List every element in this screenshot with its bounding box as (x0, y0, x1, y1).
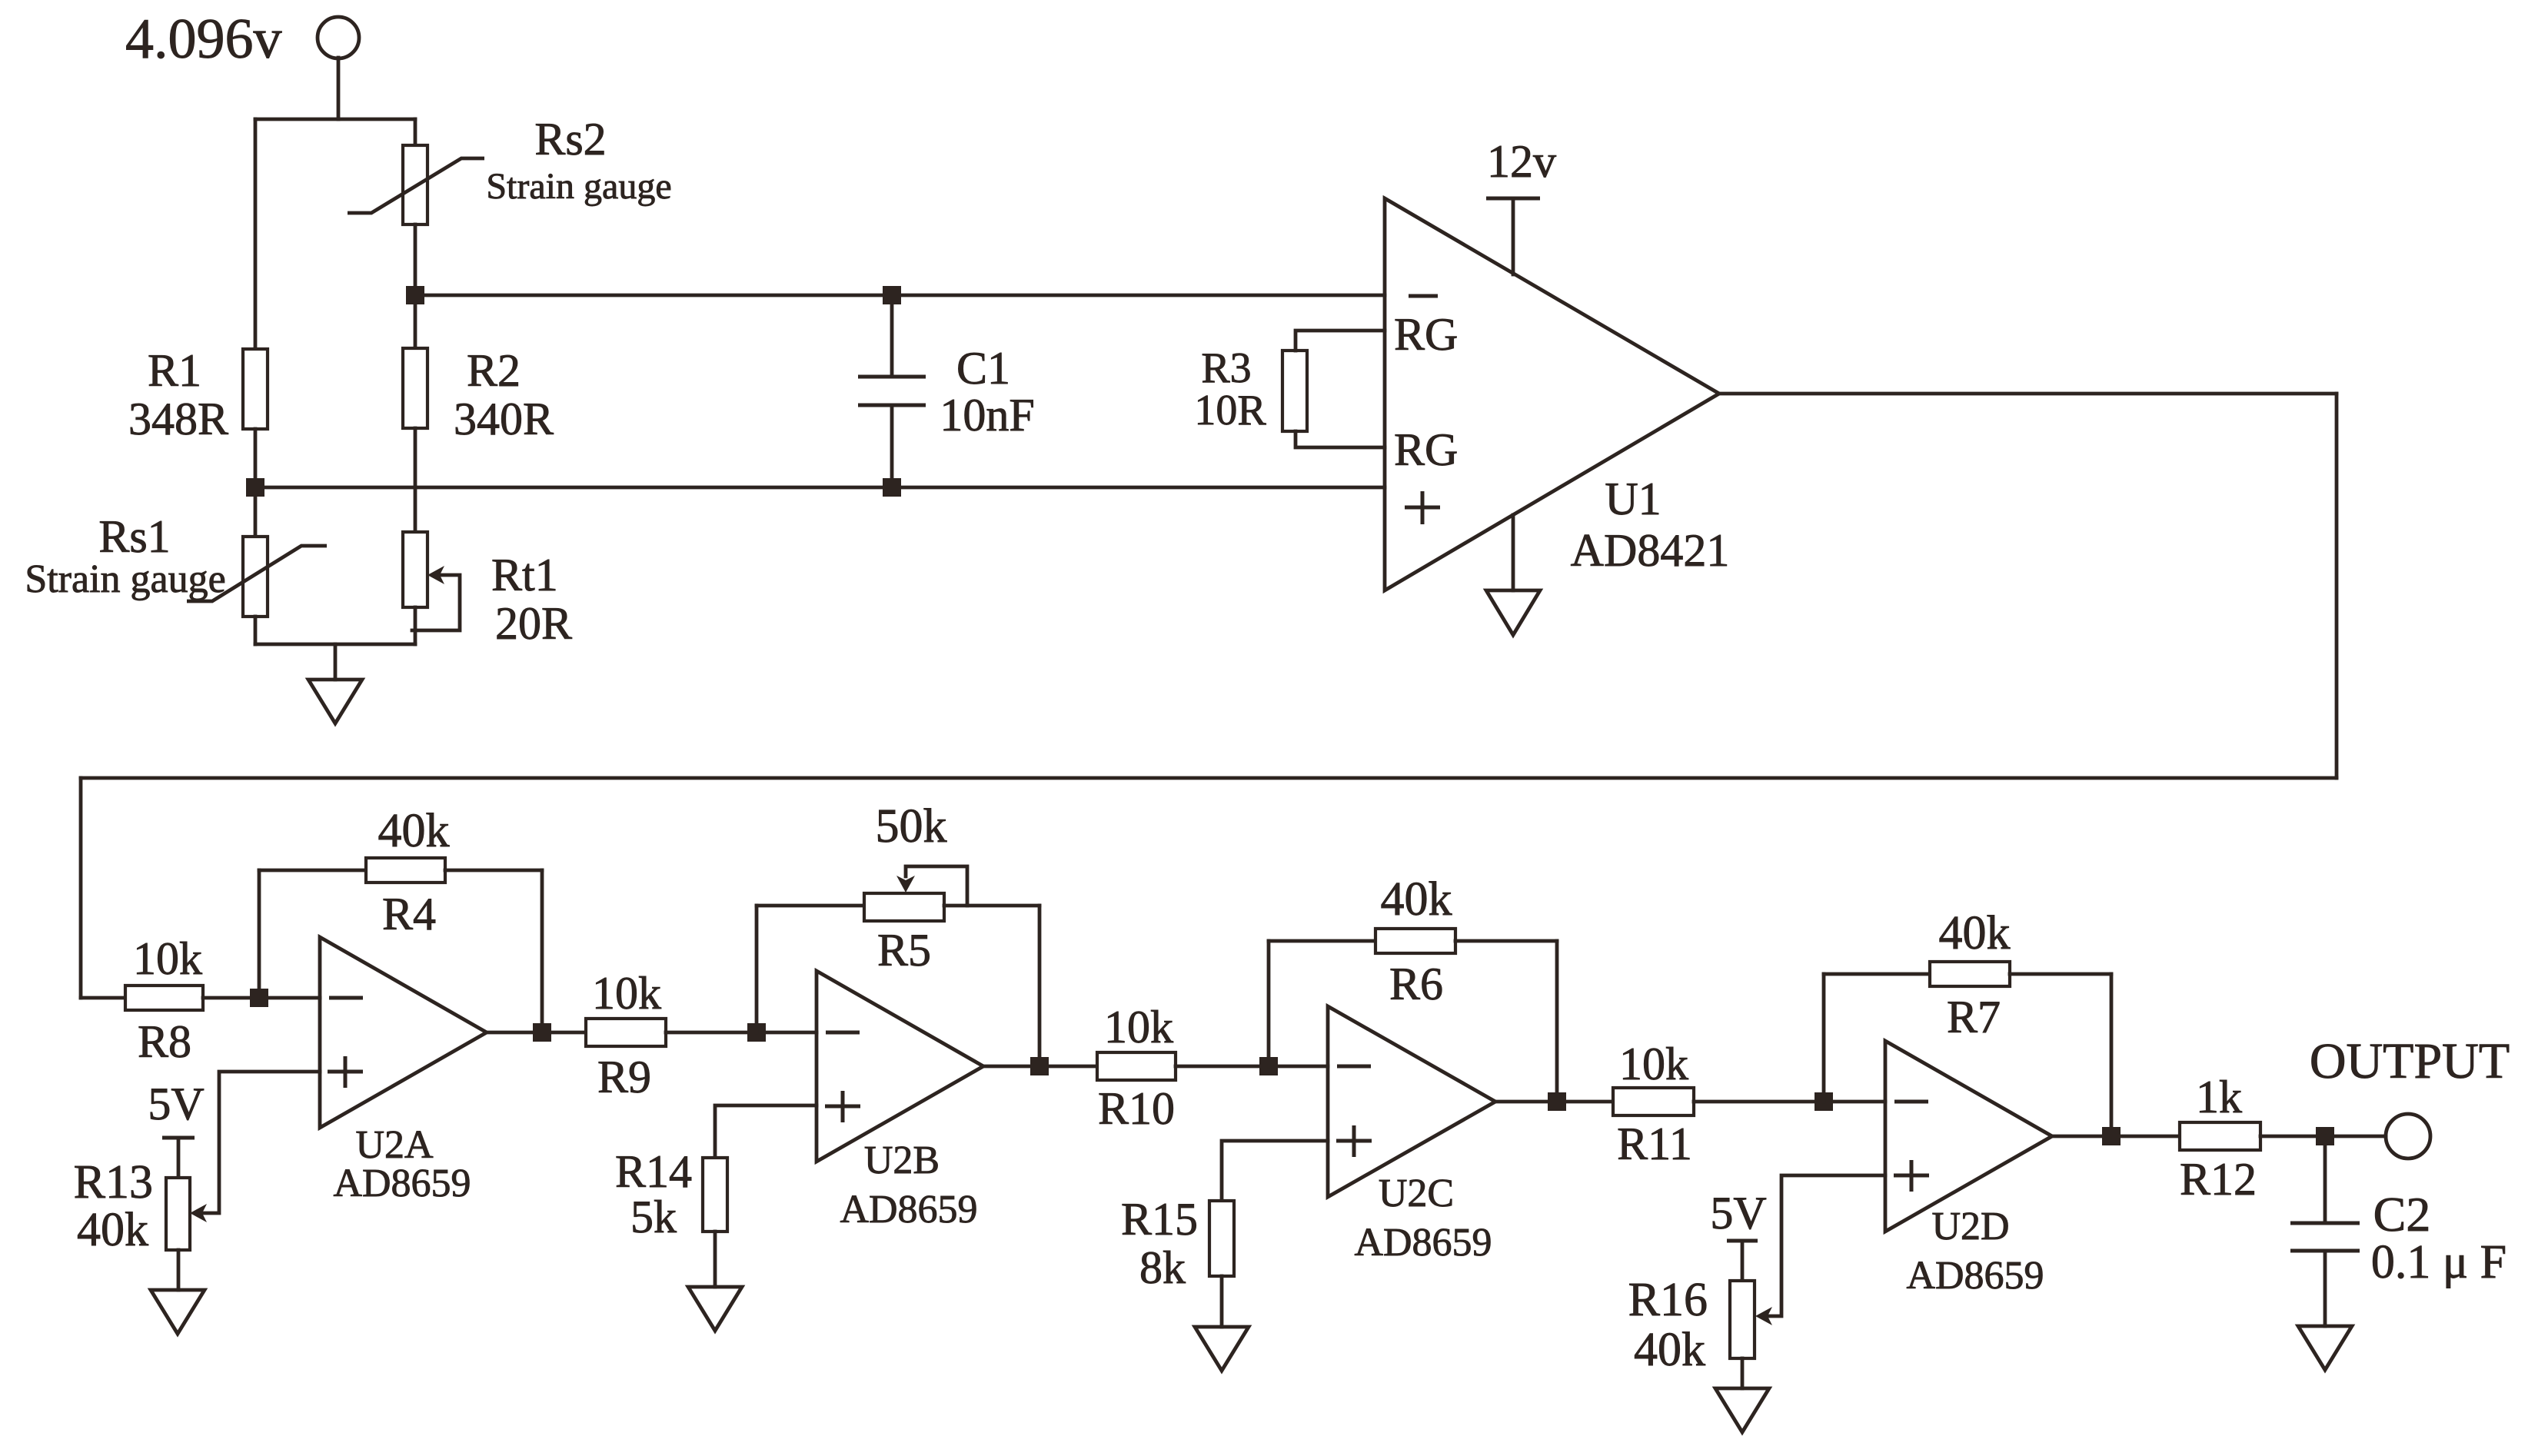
op-amp U2C AD8659 (1328, 1006, 1495, 1197)
svg-text:348R: 348R (128, 394, 228, 444)
wire R11 to U2D minus (1694, 1100, 1885, 1104)
strain symbol Rs2 diagonal (348, 158, 484, 213)
resistor R15 (1209, 1201, 1234, 1276)
junction U2A output node (533, 1023, 551, 1042)
junction U2B output node (1030, 1057, 1049, 1075)
resistor R2 (403, 348, 427, 428)
pin plus U2B (825, 1091, 860, 1122)
wire R9 to U2B minus (666, 1031, 817, 1035)
wiper arrow Rt1 (427, 566, 444, 584)
wire R8 to U2A minus (203, 996, 320, 1000)
svg-text:C1: C1 (956, 343, 1010, 394)
wire R10 to U2C minus (1176, 1065, 1328, 1069)
pin minus U2A (329, 996, 363, 1000)
svg-text:10nF: 10nF (940, 390, 1034, 440)
wire minus signal net (415, 294, 1385, 298)
wire U2B plus lead (715, 1105, 817, 1158)
svg-text:OUTPUT: OUTPUT (2310, 1033, 2510, 1089)
wire R5 right vertical (1038, 906, 1042, 1066)
wire R14 ground stem (713, 1232, 717, 1287)
trimmer Rt1 (403, 532, 427, 607)
resistor Rs2 strain gauge (403, 145, 427, 224)
wire U2C output (1495, 1100, 1613, 1104)
svg-text:R4: R4 (382, 889, 436, 939)
wire R4 right vertical (541, 870, 544, 1032)
wire R6 right horizontal (1455, 939, 1557, 943)
svg-text:R9: R9 (597, 1052, 651, 1102)
svg-text:12v: 12v (1487, 136, 1556, 187)
wire U2D output (2052, 1135, 2180, 1139)
op-amp U1 AD8421 (1385, 198, 1719, 590)
resistor R14 (703, 1158, 727, 1232)
resistor R8 (125, 986, 203, 1010)
wire 5V to R13 (177, 1138, 181, 1178)
svg-text:10k: 10k (1619, 1039, 1688, 1089)
svg-text:R1: R1 (148, 345, 201, 396)
capacitor C2 (2290, 1136, 2360, 1326)
svg-text:C2: C2 (2373, 1187, 2431, 1242)
node supply terminal circle (318, 17, 359, 58)
svg-text:U2D: U2D (1931, 1205, 2009, 1248)
svg-text:40k: 40k (378, 805, 450, 857)
pin minus U2C (1337, 1065, 1371, 1069)
wire R15 ground stem (1220, 1276, 1224, 1327)
svg-text:R14: R14 (615, 1146, 692, 1197)
wire R6 left horizontal (1269, 939, 1375, 943)
wire U1 output (1719, 392, 2337, 396)
wire R13 ground stem (177, 1250, 181, 1290)
svg-text:RG: RG (1394, 424, 1458, 475)
potentiometer R5 (864, 893, 944, 921)
wire bridge ground stem (334, 644, 338, 680)
wire bridge right branch upper (414, 119, 417, 145)
wire U2A output (487, 1031, 586, 1035)
wire into R8 (81, 996, 125, 1000)
svg-text:AD8659: AD8659 (1354, 1221, 1492, 1265)
svg-text:R8: R8 (138, 1016, 191, 1067)
svg-text:Rt1: Rt1 (491, 550, 558, 600)
svg-text:U2B: U2B (864, 1139, 940, 1182)
svg-text:R15: R15 (1121, 1194, 1198, 1245)
wire U2C plus lead (1222, 1141, 1328, 1201)
wire long return (81, 776, 2337, 780)
wire left edge vertical (79, 778, 83, 998)
svg-text:R2: R2 (467, 345, 521, 396)
power 5V bar R13 (162, 1136, 195, 1140)
svg-text:5V: 5V (1710, 1188, 1766, 1238)
svg-text:10R: 10R (1194, 387, 1266, 434)
wire R4 right horizontal (445, 869, 542, 873)
junction bridge left output (246, 478, 264, 497)
svg-text:50k: 50k (876, 800, 947, 853)
svg-text:40k: 40k (1634, 1324, 1705, 1376)
ground R15 (1195, 1327, 1249, 1371)
wire bridge bottom bar (255, 643, 415, 647)
junction output node (2316, 1127, 2334, 1145)
svg-text:R5: R5 (877, 925, 931, 976)
svg-text:R16: R16 (1628, 1274, 1708, 1326)
wiper arrow R16 (1755, 1307, 1772, 1325)
wire R5 left horizontal (757, 904, 864, 908)
ground R16 (1715, 1388, 1769, 1432)
svg-text:5V: 5V (148, 1079, 204, 1129)
svg-text:10k: 10k (133, 933, 202, 984)
svg-text:Strain gauge: Strain gauge (25, 557, 225, 601)
wire U1 ground stem (1512, 515, 1515, 590)
junction U2C minus node (1259, 1057, 1278, 1075)
svg-text:RG: RG (1394, 309, 1458, 360)
resistor R11 (1613, 1088, 1694, 1115)
ground R13 (151, 1290, 205, 1334)
wire R4 left vertical (258, 870, 261, 998)
wire supply stem (337, 58, 341, 119)
wire bridge right branch middle (414, 224, 417, 348)
junction C1 bottom (883, 478, 901, 497)
svg-text:20R: 20R (495, 598, 572, 649)
junction U2D output node (2102, 1127, 2121, 1145)
op-amp U2D AD8659 (1885, 1041, 2052, 1232)
wire 5V to R16 (1741, 1241, 1745, 1281)
junction U2C output node (1548, 1092, 1566, 1111)
op-amp U2B AD8659 (817, 971, 983, 1162)
trimmer R16 (1730, 1281, 1755, 1358)
power 5V bar R16 (1727, 1239, 1758, 1243)
svg-text:U2A: U2A (355, 1123, 434, 1167)
trimmer R13 (166, 1178, 190, 1250)
resistor R4 (366, 858, 445, 883)
wire 12v stem (1512, 198, 1515, 274)
pin plus U1 (1405, 491, 1440, 524)
wire bridge left branch middle (254, 429, 258, 537)
pin plus U2D (1894, 1160, 1929, 1192)
svg-text:40k: 40k (1939, 907, 2011, 959)
wire U2D plus lead (1768, 1175, 1885, 1316)
svg-text:10k: 10k (592, 968, 661, 1019)
wire R5 wiper loop (906, 866, 967, 906)
wire bridge left branch lower (254, 617, 258, 644)
resistor R7 (1930, 962, 2010, 986)
svg-text:40k: 40k (77, 1204, 148, 1256)
svg-text:1k: 1k (2196, 1072, 2242, 1122)
ground bridge (308, 680, 362, 723)
strain symbol Rs1 diagonal (187, 546, 327, 601)
wire R12 to output (2260, 1135, 2386, 1139)
wire bridge left branch upper (254, 119, 258, 349)
ground U1 (1486, 590, 1540, 635)
resistor R10 (1097, 1052, 1176, 1080)
svg-text:R7: R7 (1947, 992, 2001, 1042)
junction bridge right output (406, 286, 424, 304)
resistor Rs1 strain gauge (243, 537, 268, 617)
wire R16 ground stem (1741, 1358, 1745, 1388)
svg-text:8k: 8k (1139, 1242, 1186, 1293)
resistor R6 (1375, 929, 1455, 953)
svg-text:AD8421: AD8421 (1571, 525, 1730, 576)
resistor R1 (243, 349, 268, 429)
pin plus U2A (328, 1056, 363, 1088)
wire R6 right vertical (1555, 941, 1559, 1102)
capacitor C1 (858, 295, 926, 487)
pin minus U2D (1894, 1100, 1928, 1104)
wire R4 left horizontal (259, 869, 366, 873)
svg-text:R12: R12 (2180, 1154, 2257, 1205)
wire R5 right horizontal (944, 904, 1039, 908)
junction U2A minus node (250, 989, 268, 1007)
node output terminal circle (2386, 1114, 2430, 1158)
junction U2D minus node (1815, 1092, 1833, 1111)
wire R7 left vertical (1822, 974, 1826, 1102)
wire plus signal net (255, 486, 1385, 490)
svg-text:R6: R6 (1389, 959, 1443, 1009)
pin plus U2C (1336, 1125, 1372, 1157)
wiper arrow R13 (190, 1204, 207, 1222)
svg-text:40k: 40k (1381, 873, 1452, 926)
op-amp U2A AD8659 (320, 937, 487, 1128)
svg-text:R11: R11 (1617, 1119, 1692, 1169)
svg-text:U1: U1 (1605, 474, 1661, 524)
svg-text:340R: 340R (454, 394, 554, 444)
wire R7 right vertical (2110, 974, 2114, 1136)
wire U2B output (983, 1065, 1097, 1069)
svg-text:10k: 10k (1104, 1002, 1173, 1052)
pin minus U1 (1409, 294, 1438, 298)
svg-text:Strain gauge: Strain gauge (486, 166, 671, 207)
wire bridge top bar (255, 118, 415, 121)
svg-text:U2C: U2C (1379, 1172, 1454, 1215)
power 12v bar (1486, 197, 1540, 201)
junction C1 top (883, 286, 901, 304)
svg-text:R10: R10 (1098, 1083, 1175, 1134)
svg-text:AD8659: AD8659 (333, 1162, 471, 1205)
pin minus U2B (826, 1031, 860, 1035)
svg-text:R3: R3 (1201, 344, 1251, 392)
resistor R9 (586, 1019, 666, 1046)
svg-text:4.096v: 4.096v (125, 8, 282, 71)
wire U2A plus lead (202, 1072, 320, 1213)
resistor R3 (1282, 351, 1307, 431)
svg-text:AD8659: AD8659 (840, 1188, 977, 1232)
wire R6 left vertical (1267, 941, 1271, 1066)
ground C2 (2298, 1326, 2352, 1370)
svg-text:AD8659: AD8659 (1906, 1254, 2044, 1298)
resistor R12 (2180, 1122, 2260, 1150)
wiper arrow R5 (896, 876, 915, 893)
svg-text:R13: R13 (74, 1156, 153, 1208)
wire R7 right horizontal (2010, 972, 2111, 976)
svg-text:5k: 5k (630, 1192, 677, 1242)
wire bridge right branch bottom (414, 607, 417, 644)
ground R14 (688, 1287, 742, 1331)
wire Rt1 wiper loop (412, 575, 460, 630)
wire R3 to RG bottom (1296, 431, 1385, 447)
svg-text:Rs1: Rs1 (98, 511, 170, 562)
wire bridge right branch lower (414, 428, 417, 532)
wire right edge vertical (2335, 394, 2339, 778)
svg-text:0.1 μ F: 0.1 μ F (2371, 1236, 2506, 1288)
wire R5 left vertical (755, 906, 759, 1032)
wire R7 left horizontal (1824, 972, 1930, 976)
wire R3 to RG top (1296, 331, 1385, 351)
svg-text:Rs2: Rs2 (534, 114, 606, 165)
junction U2B minus node (747, 1023, 766, 1042)
